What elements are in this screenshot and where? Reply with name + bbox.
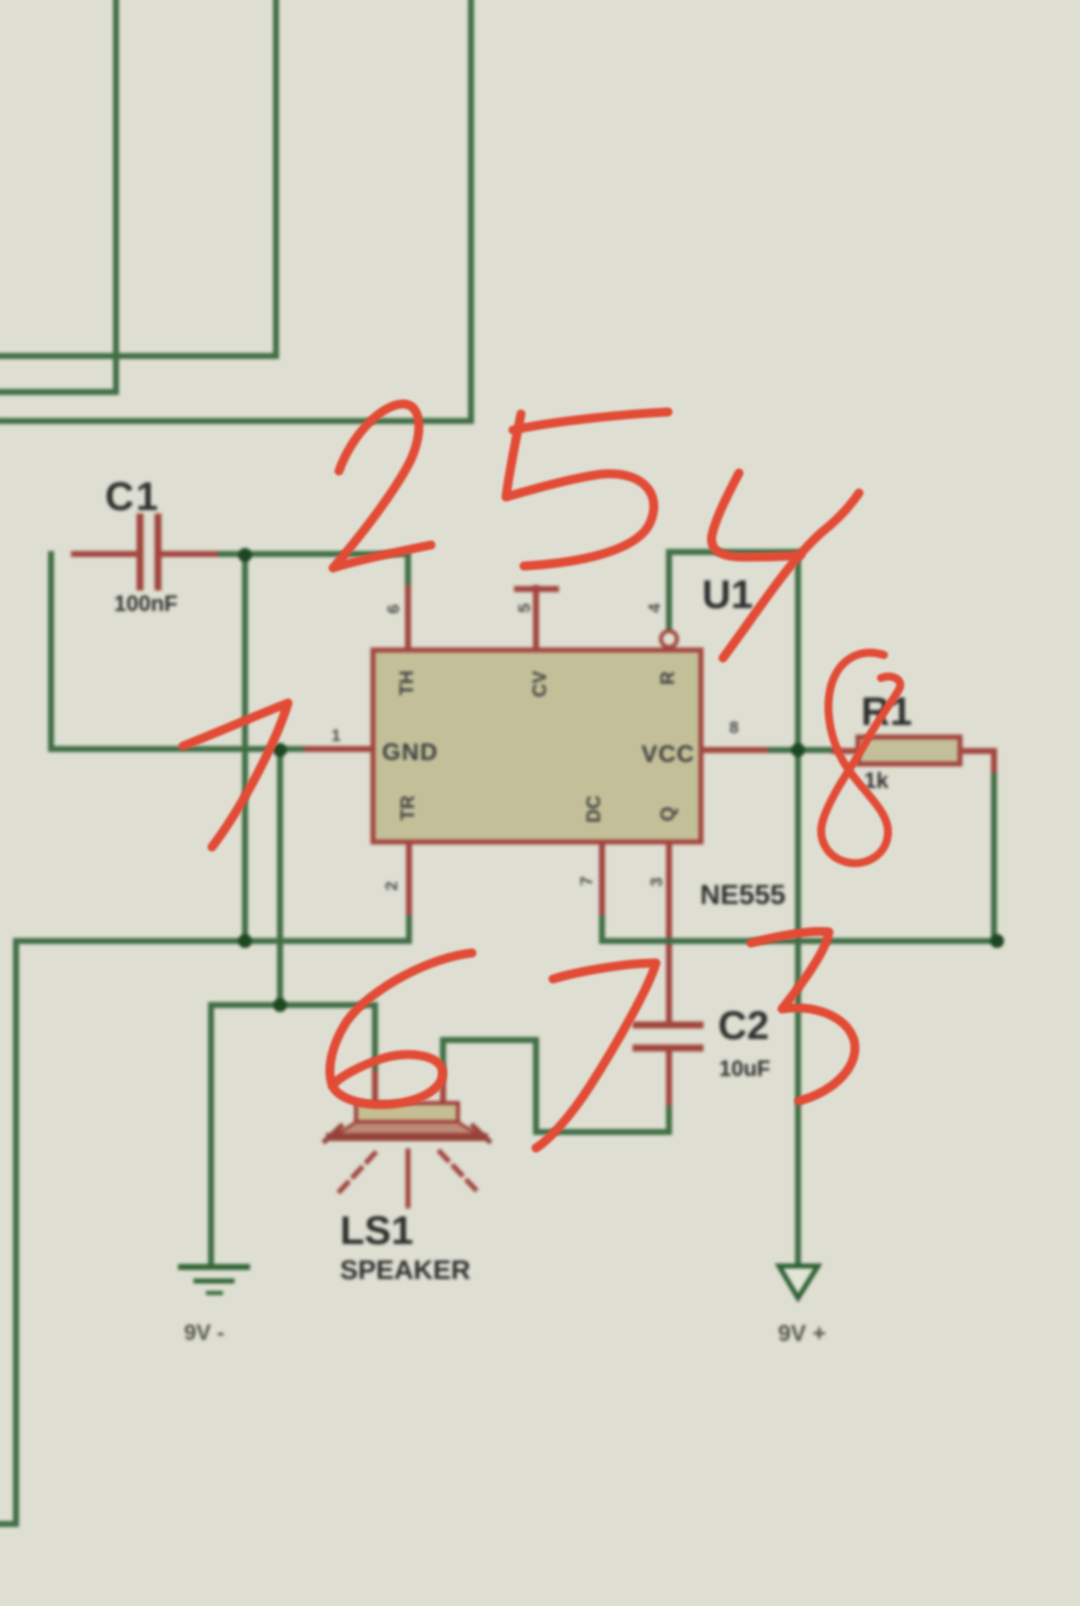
wire node TH/TR vertical: [242, 554, 248, 941]
pin 2 TR stub: [406, 842, 412, 912]
svg-text:9V -: 9V -: [184, 1320, 224, 1345]
svg-text:SPEAKER: SPEAKER: [340, 1255, 471, 1285]
junction node VCC rail: [791, 743, 805, 757]
svg-text:CV: CV: [530, 670, 551, 697]
wire bottom right bus: [602, 911, 997, 941]
junction node speaker left: [273, 998, 287, 1012]
handwritten digit 8: [821, 653, 900, 863]
svg-text:LS1: LS1: [340, 1209, 413, 1253]
handwritten digit 7: [536, 963, 656, 1148]
wire speaker left to ground: [211, 1005, 375, 1266]
pin 4 inversion bubble: [661, 631, 677, 647]
speaker LS1 cone: [336, 1122, 478, 1135]
svg-text:2: 2: [382, 881, 401, 890]
junction node TR: [238, 934, 252, 948]
svg-text:TH: TH: [397, 670, 418, 695]
wire R1 right lead down: [991, 769, 997, 941]
wire top-left L2: [0, 0, 276, 356]
capacitor C1 plates: [140, 517, 158, 587]
pin 3 Q stub to C2: [666, 842, 672, 1022]
wire reset pin4 top to VCC rail: [669, 552, 798, 1265]
speaker LS1 corner wings: [325, 1126, 489, 1141]
svg-text:DC: DC: [584, 795, 605, 823]
svg-text:4: 4: [645, 603, 664, 613]
handwritten digit 1: [183, 703, 288, 847]
capacitor C2 plates: [636, 1025, 700, 1048]
svg-text:10uF: 10uF: [719, 1056, 770, 1081]
svg-text:VCC: VCC: [641, 741, 695, 768]
svg-text:U1: U1: [702, 573, 753, 617]
svg-text:Q: Q: [658, 807, 679, 822]
svg-text:7: 7: [577, 876, 596, 885]
handwritten digit 4: [712, 473, 859, 658]
wire VCC pin8 to rail junction: [765, 747, 834, 753]
svg-text:6: 6: [384, 604, 403, 613]
junction node R1 bottom: [990, 934, 1004, 948]
pin 6 TH stub: [405, 588, 411, 651]
speaker LS1 magnet: [356, 1103, 458, 1122]
resistor R1 leads: [834, 751, 994, 770]
wire GND junction down: [277, 749, 283, 1005]
svg-text:5: 5: [515, 603, 534, 612]
wire C1 right lead to pin6 corner: [215, 554, 408, 588]
speaker LS1 leads: [375, 1073, 443, 1103]
svg-text:TR: TR: [398, 795, 419, 821]
wire C2 bottom loop to speaker: [443, 1040, 669, 1132]
svg-text:1: 1: [331, 726, 340, 745]
svg-text:9V +: 9V +: [778, 1320, 826, 1346]
wire top-left L1: [0, 0, 116, 392]
pin 8 VCC stub: [701, 747, 765, 753]
wire top-left L3: [0, 0, 471, 421]
junction node C1/TH: [238, 548, 252, 562]
pin 1 GND stub: [307, 746, 372, 752]
svg-text:C2: C2: [718, 1004, 769, 1048]
wire C1 left loop to GND: [51, 554, 307, 749]
handwritten digit 3: [751, 932, 855, 1101]
handwritten digit 2: [333, 404, 431, 568]
op-amp U1 IC body NE555: [373, 650, 701, 842]
junction node GND: [273, 743, 287, 757]
svg-text:R: R: [658, 671, 679, 685]
speaker LS1 base bar: [330, 1133, 484, 1141]
svg-text:8: 8: [729, 718, 738, 737]
handwritten digit 6: [330, 953, 472, 1105]
capacitor C2 bottom lead: [666, 1052, 672, 1103]
ground symbol: [181, 1267, 247, 1293]
svg-text:C1: C1: [105, 475, 160, 519]
speaker LS1 sound rays: [340, 1151, 476, 1206]
svg-text:NE555: NE555: [700, 879, 786, 910]
handwritten digit 5: [506, 412, 668, 566]
capacitor C1 leads: [74, 551, 215, 557]
svg-text:100nF: 100nF: [114, 591, 178, 616]
svg-text:GND: GND: [382, 739, 438, 766]
pin 5 CV stub with tee: [517, 588, 556, 651]
power arrow 9V+: [779, 1266, 818, 1298]
svg-text:3: 3: [647, 877, 666, 886]
resistor R1 body: [858, 737, 960, 764]
wire bottom left bus: [0, 911, 409, 1524]
pin 7 DC stub: [599, 842, 605, 912]
